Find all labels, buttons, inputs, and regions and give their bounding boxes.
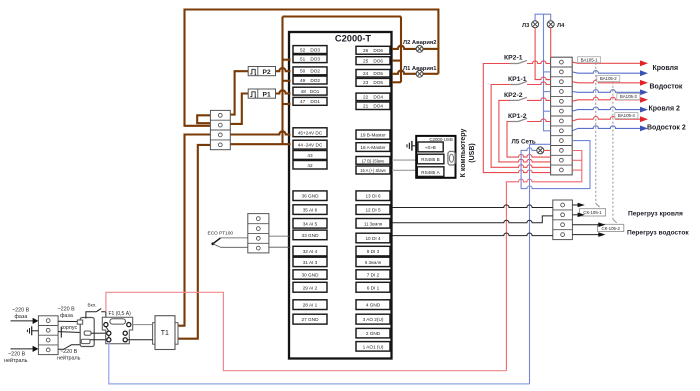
- transformer T1: [153, 316, 178, 350]
- svg-text:1 AO1 (U): 1 AO1 (U): [363, 344, 384, 349]
- svg-text:9 DI 3: 9 DI 3: [367, 249, 380, 254]
- svg-text:34 AI 5: 34 AI 5: [303, 221, 318, 226]
- svg-text:Т1: Т1: [161, 330, 169, 337]
- svg-text:Л4: Л4: [557, 23, 565, 29]
- terminal 26 DO6: [356, 46, 390, 54]
- wire block D cell2 arrow: [572, 214, 578, 216]
- wire brown inner loop top: [283, 15, 402, 17]
- terminal 45 +24V DC: [293, 128, 327, 137]
- wire lamp L5 to strip cell10: [544, 149, 551, 151]
- terminal 34 AI 5: [293, 219, 327, 229]
- svg-text:фаза: фаза: [15, 314, 28, 320]
- terminal 17 B(-)Slave: [356, 157, 390, 165]
- terminal block A (24V distribution): [210, 110, 230, 149]
- svg-text:7 DI 2: 7 DI 2: [367, 273, 380, 278]
- wire block A cell1 to relay P2: [230, 71, 248, 114]
- wire blue riser to strip cell9: [530, 144, 551, 384]
- terminal 27 GND: [293, 314, 327, 324]
- svg-text:нейтраль: нейтраль: [57, 354, 81, 361]
- svg-text:48 DO1: 48 DO1: [301, 89, 320, 94]
- svg-text:СК-105-2: СК-105-2: [601, 226, 620, 231]
- svg-text:26 DO6: 26 DO6: [363, 48, 383, 53]
- terminal 9 DI 3: [356, 246, 390, 256]
- wire DI5-12 to block D cell1 with hops: [392, 205, 553, 208]
- svg-text:Л3: Л3: [522, 23, 530, 29]
- svg-text:ВА105-4: ВА105-4: [618, 113, 635, 118]
- svg-text:27 GND: 27 GND: [302, 317, 320, 322]
- wire T1 secondary to block A cell3: [178, 135, 210, 326]
- contact KR2-1: [504, 55, 551, 64]
- wire bracket KR2-2 to strip cell11: [499, 100, 551, 161]
- wire red riser wrap to strip right bus: [506, 151, 581, 371]
- svg-text:корпус: корпус: [61, 325, 78, 331]
- svg-text:«0»В: «0»В: [425, 145, 436, 150]
- wire red bus stub cell12: [572, 169, 582, 171]
- wire VA105-4 red Vodostok 2: [572, 117, 640, 121]
- lamp L3: [532, 21, 539, 28]
- svg-text:Л1 Авария1: Л1 Авария1: [403, 66, 437, 72]
- wire neutral block E to plug with break: [57, 345, 81, 362]
- terminal 33 GND: [293, 230, 327, 240]
- svg-text:25 DO6: 25 DO6: [363, 58, 383, 63]
- wire DO6-25 to inner loop: [392, 60, 401, 62]
- wire VA105-3 red Krovlya 2: [572, 97, 640, 101]
- terminal 4 GND: [356, 300, 390, 310]
- switch Vkl: [86, 303, 106, 323]
- terminal 28 AI 1: [293, 300, 327, 310]
- terminal block E (mains input): [38, 316, 58, 355]
- wire block A cell4 to terminal 44: [230, 143, 290, 145]
- terminal 25 DO6: [356, 57, 390, 65]
- wire bracket KR1-1 to strip cell12: [491, 85, 550, 168]
- svg-text:31 AI 3: 31 AI 3: [303, 260, 318, 265]
- wire red bus stub cell11: [572, 159, 582, 161]
- terminal 11 Zemlya: [356, 219, 390, 229]
- wire plug korpus pin to fuse middle-left screw: [91, 332, 107, 334]
- terminal strip S1 (12 cells): [551, 57, 573, 175]
- wire plug neutral pin to fuse bottom-left screw: [90, 339, 107, 341]
- wire red phase riser (fuse to right side): [106, 292, 507, 370]
- wire relay P1 output to terminal 48 with hop: [276, 90, 291, 93]
- terminal 3 AO 2(U): [356, 314, 390, 324]
- svg-text:44 -24V DC: 44 -24V DC: [298, 143, 323, 148]
- svg-text:43: 43: [307, 153, 313, 158]
- svg-text:КР2-1: КР2-1: [504, 55, 523, 62]
- svg-text:8 Земля: 8 Земля: [365, 260, 381, 265]
- controller U1 C2000-T outer box: [289, 32, 392, 359]
- svg-text:18 A-Master: 18 A-Master: [360, 145, 386, 150]
- terminal 44 -24V DC: [293, 140, 327, 149]
- wire VA105-2 red Vodostok: [572, 80, 640, 83]
- wire block D cell1 arrow: [572, 204, 578, 206]
- svg-text:42: 42: [307, 163, 313, 168]
- connector plug X1: [77, 318, 94, 347]
- terminal 7 DI 2: [356, 270, 390, 279]
- svg-text:ВА105-3: ВА105-3: [620, 94, 637, 99]
- svg-text:24 DO5: 24 DO5: [363, 71, 383, 76]
- terminal 42: [293, 161, 327, 170]
- wire stub to terminal 51: [283, 59, 291, 61]
- svg-text:Л5 Сеть: Л5 Сеть: [512, 139, 536, 146]
- wire korpus block E to plug: [58, 325, 84, 338]
- svg-text:С2000-Т: С2000-Т: [335, 34, 371, 44]
- terminal 43: [293, 151, 327, 160]
- svg-text:13 DI 6: 13 DI 6: [365, 194, 381, 199]
- wire PT100 to block B cell4: [221, 246, 248, 248]
- label VA105-4: [615, 113, 638, 119]
- terminal 52 DO3: [293, 46, 327, 54]
- svg-text:33 GND: 33 GND: [302, 233, 320, 238]
- wire phase block E to plug: [58, 320, 79, 322]
- wire Zemlya-11 to block D cell2 with hops: [392, 216, 553, 223]
- wire bracket KR2-1 to strip cell12: [483, 64, 550, 173]
- svg-text:23 DO5: 23 DO5: [363, 80, 383, 85]
- terminal 35 AI 6: [293, 205, 327, 215]
- wire DO6-26 to lamp L2 with hop: [392, 46, 416, 49]
- svg-text:F1 (0,5 А): F1 (0,5 А): [109, 311, 132, 317]
- svg-text:Перегруз кровля: Перегруз кровля: [628, 210, 683, 217]
- terminal 6 DI 1: [356, 282, 390, 292]
- wire brown outer lamp loop (DO6 26 to block A cell2): [185, 10, 439, 126]
- wire blue pair Krovlya 2: [572, 107, 640, 111]
- terminal 16 A(+)Slave: [356, 166, 390, 174]
- svg-text:29 AI 2: 29 AI 2: [303, 285, 318, 290]
- svg-text:Р1: Р1: [263, 92, 271, 99]
- terminal 10 DI 4: [356, 233, 390, 243]
- relay P2 (pulse relay): [248, 67, 275, 77]
- fuse F1 holder: [102, 311, 132, 344]
- svg-text:Р2: Р2: [263, 69, 271, 76]
- wire lamp L1 to outer loop: [423, 73, 438, 75]
- svg-text:Вкл.: Вкл.: [88, 303, 97, 308]
- terminal block B (PT100 input): [248, 214, 269, 253]
- USB socket symbol: [448, 151, 455, 165]
- wire DO5-23 to inner loop: [392, 81, 401, 83]
- wire blue bus to strip cells 2 4 6 8: [544, 14, 551, 131]
- wire DI4-10 to block D cell4 with hops: [392, 233, 553, 236]
- ground korpus left: [27, 326, 38, 335]
- wire inner loop left vertical common: [281, 17, 283, 145]
- wire DO5-24 to lamp L1 with hop: [392, 71, 416, 74]
- svg-text:ВА105-1: ВА105-1: [581, 57, 598, 62]
- terminal 24 DO5: [356, 70, 390, 78]
- svg-text:28 AI 1: 28 AI 1: [303, 303, 318, 308]
- contact KR1-1: [508, 76, 551, 85]
- wire lamp L4 red to strip cell1 top: [550, 28, 552, 58]
- wire stub to terminal 47: [283, 103, 291, 105]
- svg-text:49 DO2: 49 DO2: [300, 78, 320, 83]
- arrow Krovlya: [640, 60, 648, 66]
- node mains phase input: [11, 308, 39, 325]
- wire block B cell3 to terminal 33: [269, 235, 291, 237]
- svg-text:17 B(-)Slave: 17 B(-)Slave: [362, 158, 385, 163]
- svg-text:11 Земля: 11 Земля: [364, 221, 382, 226]
- svg-text:Водосток 2: Водосток 2: [647, 125, 686, 132]
- wire blue lamp feed top: [535, 14, 551, 21]
- wire inner loop right vertical: [400, 17, 402, 83]
- terminal 23 DO5: [356, 78, 390, 86]
- adapter C2000-USB box: [416, 136, 455, 178]
- wire relay P2 output to terminal 50 with hop: [276, 68, 291, 71]
- svg-text:Кровля: Кровля: [653, 65, 679, 72]
- svg-text:Кровля 2: Кровля 2: [649, 105, 681, 112]
- svg-text:ВА105-2: ВА105-2: [600, 76, 617, 81]
- wire PT100 to block B cell3: [221, 237, 248, 239]
- svg-text:3 AO 2(U): 3 AO 2(U): [363, 317, 384, 322]
- sensor ECO PT100: [208, 231, 234, 248]
- contact KR1-2: [508, 113, 551, 122]
- terminal 8 Zemlya: [356, 257, 390, 266]
- svg-text:КР2-2: КР2-2: [504, 92, 523, 99]
- terminal 51 DO3: [293, 55, 327, 63]
- wire RS485 A to C2000-USB: [392, 169, 417, 171]
- svg-text:К компьютеру: К компьютеру: [460, 129, 467, 178]
- wire fuse to T1 primary top: [131, 324, 153, 326]
- svg-text:~220 В: ~220 В: [12, 308, 30, 314]
- wire bracket KR1-2 to strip cell11: [507, 122, 551, 158]
- terminal 1 AO1 (U): [356, 342, 390, 352]
- terminal 12 DI 5: [356, 205, 390, 215]
- wire blue wrap cell9 to lamp L5: [521, 141, 590, 189]
- svg-text:45+24V DC: 45+24V DC: [298, 130, 323, 135]
- svg-text:22 DO4: 22 DO4: [363, 95, 383, 100]
- wire blue pair Vodostok 2: [572, 126, 640, 131]
- svg-text:36 GND: 36 GND: [302, 194, 320, 199]
- wire T1 secondary to block A cell4: [178, 145, 210, 339]
- wire blue pair Vodostok: [572, 90, 640, 93]
- lamp L4: [547, 21, 554, 28]
- contact KR2-2: [504, 92, 551, 101]
- ground chassis at C2000-USB: [407, 141, 416, 151]
- svg-text:Перегруз водосток: Перегруз водосток: [627, 229, 689, 236]
- label VA105-2: [597, 76, 620, 82]
- svg-text:47 DO1: 47 DO1: [300, 99, 320, 104]
- wire VA105-2 blue: [572, 71, 640, 74]
- terminal 47 DO1: [293, 97, 327, 105]
- terminal 19 B-Master: [356, 130, 390, 139]
- svg-text:фаза: фаза: [60, 313, 73, 319]
- lamp L5 Set: [537, 147, 544, 154]
- terminal 48 DO1: [293, 87, 327, 95]
- svg-text:С2000-USB: С2000-USB: [429, 137, 452, 142]
- svg-text:50 DO2: 50 DO2: [300, 69, 320, 74]
- svg-text:2 GND: 2 GND: [366, 331, 381, 336]
- terminal 30 GND: [293, 270, 327, 279]
- label SK-105-2: [598, 224, 624, 231]
- wire VA105-1 red Krovlya: [572, 62, 640, 63]
- svg-text:~220 В: ~220 В: [8, 352, 26, 358]
- svg-text:52 DO3: 52 DO3: [300, 47, 320, 52]
- node K komputeru (USB) label: [460, 129, 476, 178]
- wire lamp L3 red to strip cell3 with hop: [535, 28, 551, 80]
- wire fuse to T1 primary bottom: [127, 339, 152, 341]
- wire blue neutral (fuse to right side): [109, 342, 530, 384]
- svg-text:нейтраль: нейтраль: [4, 357, 28, 364]
- terminal 32 AI 4: [293, 246, 327, 256]
- svg-text:~220 В: ~220 В: [60, 349, 78, 355]
- wire block A cell2 to relay P1: [230, 94, 248, 124]
- terminal 29 AI 2: [293, 282, 327, 292]
- terminal 21 DO4: [356, 102, 390, 110]
- svg-text:(USB): (USB): [469, 143, 476, 162]
- svg-text:4 GND: 4 GND: [366, 303, 381, 308]
- svg-text:30 GND: 30 GND: [302, 273, 320, 278]
- svg-text:СК-105-1: СК-105-1: [583, 210, 602, 215]
- terminal 50 DO2: [293, 67, 327, 75]
- svg-text:35 AI 6: 35 AI 6: [303, 208, 318, 213]
- svg-text:Водосток: Водосток: [650, 83, 683, 90]
- svg-text:КР1-2: КР1-2: [508, 113, 527, 120]
- wire lamp L2 to outer loop: [423, 48, 438, 50]
- wire block D cell3 arrow: [572, 224, 598, 226]
- relay P1 (pulse relay): [248, 89, 275, 99]
- wire stub to terminal 49: [283, 80, 291, 82]
- terminal 36 GND: [293, 191, 327, 201]
- label VA105-3: [617, 94, 640, 100]
- svg-text:10 DI 4: 10 DI 4: [365, 236, 381, 241]
- terminal 2 GND: [356, 328, 390, 338]
- svg-text:RS485 А: RS485 А: [421, 170, 440, 175]
- wire RS485 B to C2000-USB: [392, 159, 417, 161]
- svg-text:12 DI 5: 12 DI 5: [365, 208, 381, 213]
- svg-text:6 DI 1: 6 DI 1: [367, 285, 380, 290]
- terminal 22 DO4: [356, 93, 390, 101]
- wire block A cell3 to terminal 45 with hop: [230, 131, 290, 134]
- label SK-105-1: [579, 209, 605, 216]
- node mains neutral input: [4, 346, 38, 364]
- terminal 13 DI 6: [356, 191, 390, 201]
- cable marker dashed VA105-1 route: [595, 63, 597, 204]
- svg-text:32 AI 4: 32 AI 4: [303, 249, 318, 254]
- svg-text:51 DO3: 51 DO3: [300, 56, 320, 61]
- terminal 49 DO2: [293, 76, 327, 84]
- svg-text:21 DO4: 21 DO4: [363, 104, 383, 109]
- wire block B cell4 to terminal 32: [269, 246, 291, 248]
- terminal 31 AI 3: [293, 257, 327, 266]
- svg-text:ЕСО РТ100: ЕСО РТ100: [208, 231, 234, 237]
- svg-text:~220 В: ~220 В: [58, 307, 76, 313]
- svg-text:16 A (+) Slave: 16 A (+) Slave: [360, 168, 386, 173]
- wire block D cell4 arrow: [572, 234, 598, 236]
- terminal 18 A-Master: [356, 143, 390, 152]
- label VA105-1: [578, 57, 601, 63]
- lamp L2 Avariya2: [416, 46, 423, 53]
- wire jumper block A cell1-cell2: [197, 115, 210, 123]
- cable marker dashed VA105-2 route: [612, 82, 614, 220]
- terminal block D (overload sensors): [553, 200, 573, 240]
- svg-text:RS485 В: RS485 В: [421, 157, 439, 162]
- svg-text:Л2 Авария2: Л2 Авария2: [403, 40, 437, 46]
- lamp L1 Avariya1: [416, 70, 423, 77]
- svg-text:19 B-Master: 19 B-Master: [360, 133, 386, 138]
